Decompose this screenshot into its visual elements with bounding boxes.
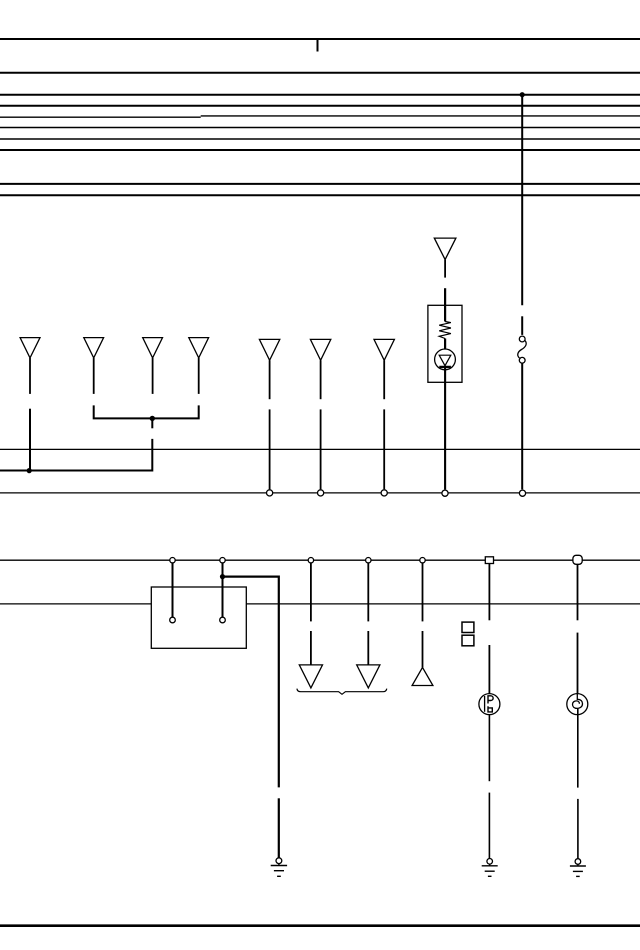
wire stub below bracket dot: [151, 418, 153, 428]
lamp P lower glyph: [488, 706, 492, 712]
relay box: [151, 587, 246, 648]
junction dot on bracket: [150, 416, 155, 421]
ground G3: [570, 859, 586, 877]
input triangle up: [412, 667, 433, 685]
terminal circle inside box: [220, 617, 226, 623]
wire stem: [488, 645, 490, 694]
wire bus line 9: [0, 183, 640, 185]
wire: [521, 316, 523, 335]
bottom border bar: [0, 924, 640, 927]
wire: [577, 799, 579, 859]
junction dot: [27, 468, 32, 473]
triangle arrow 7: [374, 339, 394, 360]
terminal circle inside box: [170, 617, 176, 623]
wire bus line 6: [0, 127, 640, 129]
resistor R inside box: [439, 322, 451, 339]
terminal square on line C: [485, 557, 493, 564]
wire: [488, 793, 490, 859]
triangle arrow 1: [20, 338, 40, 358]
wire bus line 1: [0, 38, 640, 40]
triangle arrow 8 above indicator box: [434, 238, 456, 260]
wire stem 6 upper: [320, 360, 322, 399]
terminal circle: [442, 490, 448, 496]
output triangle down: [357, 665, 380, 688]
lamp P circle: [479, 694, 500, 715]
terminal circle on line C: [366, 558, 371, 563]
wire stem 8 upper: [444, 260, 446, 278]
wire bus line 5 right segment: [201, 115, 640, 117]
terminal circle: [318, 490, 324, 496]
ground G1: [271, 858, 287, 877]
connector square lower: [462, 635, 474, 646]
wire stem 7 upper: [383, 360, 385, 399]
wire horizontal line A: [0, 448, 640, 450]
wire stem: [577, 633, 579, 694]
wire bus line 3: [0, 94, 640, 96]
wire below lamp coil: [577, 708, 579, 787]
wire bus line 8: [0, 149, 640, 151]
wire below lamp P: [488, 715, 490, 782]
terminal circle on line C: [220, 558, 225, 563]
triangle arrow 4: [189, 338, 209, 358]
wire horizontal line B: [0, 492, 640, 494]
wire stem 2: [93, 358, 95, 394]
lamp P letter: [488, 696, 493, 704]
wire stem into relay box: [172, 560, 174, 617]
wire stem: [422, 560, 424, 621]
wire bus line 2: [0, 72, 640, 74]
junction dot: [220, 574, 225, 579]
wire stem: [488, 563, 490, 620]
terminal circle: [381, 490, 387, 496]
fusible link: [518, 336, 526, 363]
wire stem 1 lower: [29, 409, 31, 471]
triangle arrow 6: [310, 339, 330, 360]
wire stem 8 lower: [444, 367, 446, 490]
brace under triangles: [297, 689, 387, 695]
wire stem: [577, 560, 579, 620]
triangle arrow 3: [143, 338, 163, 358]
wire stem 7 lower: [383, 409, 385, 489]
diode cathode bar: [439, 366, 451, 368]
wire bracket joining stems 2 3 4: [94, 405, 199, 418]
wire stem 4: [198, 358, 200, 394]
terminal circle: [267, 490, 273, 496]
triangle arrow 2: [84, 338, 104, 358]
wire stem: [367, 631, 369, 665]
wire stem 8 into box: [444, 288, 446, 321]
terminal circle: [519, 490, 525, 496]
wire down and left to edge: [0, 439, 152, 471]
wire stem into relay box: [222, 560, 224, 617]
wire bus line 7: [0, 138, 640, 140]
wire stem: [310, 631, 312, 665]
wire stem 6 lower: [320, 409, 322, 489]
lamp P inner bar: [484, 696, 486, 712]
lamp coil circle: [567, 694, 588, 715]
wire horizontal line D: [0, 603, 640, 605]
wire stem 5 upper: [269, 360, 271, 399]
connector square upper: [462, 622, 474, 632]
wire horizontal line C: [0, 559, 640, 561]
wire thick L to ground: [223, 577, 279, 788]
junction dot on bus line 3: [520, 92, 525, 97]
output triangle down: [299, 665, 322, 688]
terminal circle on line C: [420, 558, 425, 563]
wire stem: [367, 560, 369, 621]
wire: [444, 339, 446, 350]
wire stem 1 upper: [29, 358, 31, 394]
terminal round square on line C: [573, 555, 582, 564]
diode triangle: [439, 355, 451, 366]
wire bus line 5 left segment: [0, 116, 201, 118]
terminal circle on line C: [170, 558, 175, 563]
wire bus line 10: [0, 194, 640, 196]
lamp coil spiral: [573, 694, 583, 709]
wire: [521, 363, 523, 489]
wire stem: [422, 631, 424, 667]
wire stem 3: [152, 358, 154, 394]
wire stem: [310, 560, 312, 621]
ground G2: [482, 859, 498, 877]
wire stub on bus line 1: [317, 39, 319, 52]
wire feed from bus 3 down: [521, 95, 523, 306]
wire: [278, 798, 280, 858]
indicator box: [428, 305, 462, 382]
terminal circle on line C: [308, 558, 313, 563]
wire stem 5 lower: [269, 409, 271, 489]
diode lamp circle: [435, 349, 456, 370]
wire bus line 4: [0, 105, 640, 107]
triangle arrow 5: [259, 339, 279, 360]
